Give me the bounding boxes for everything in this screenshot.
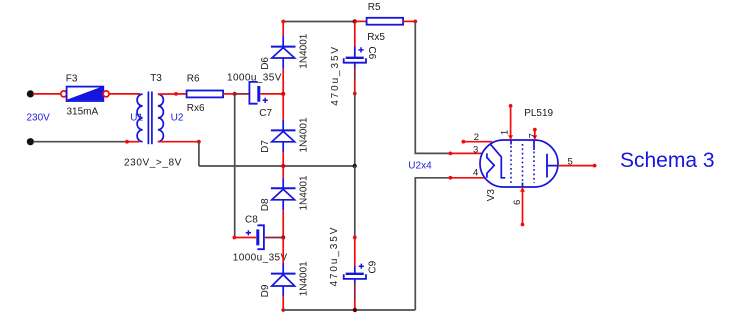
node junction R6/C7 (233, 92, 237, 96)
svg-text:R6: R6 (187, 74, 200, 85)
svg-text:T3: T3 (150, 73, 162, 84)
svg-text:470u_35V: 470u_35V (330, 45, 341, 106)
svg-text:1N4001: 1N4001 (299, 175, 310, 210)
svg-text:C7: C7 (259, 108, 272, 119)
node junction D7/D8 (281, 164, 285, 168)
wire pin 6 (520, 187, 525, 225)
tube heater (487, 153, 494, 177)
tube grid g1 (510, 140, 512, 183)
svg-text:Rx6: Rx6 (187, 103, 205, 114)
wire gray C7-C8 column (234, 94, 236, 238)
svg-text:1000u_35V: 1000u_35V (233, 252, 288, 263)
svg-text:1N4001: 1N4001 (299, 261, 310, 296)
node secondary top pin (174, 92, 178, 96)
resistor R6 (187, 91, 224, 98)
svg-text:D7: D7 (260, 140, 271, 153)
wire pin 7 (532, 130, 537, 140)
wire (235, 93, 250, 95)
svg-text:7: 7 (527, 133, 538, 138)
wire right column upper (415, 21, 450, 153)
svg-text:470u_35V: 470u_35V (329, 226, 340, 287)
svg-text:D8: D8 (260, 198, 271, 211)
node D9 bottom (281, 308, 285, 312)
wire (109, 93, 140, 95)
node pin5 end (593, 164, 597, 168)
capacitor C8 (234, 225, 283, 249)
tube grid g3 (533, 140, 535, 183)
wire (354, 166, 356, 237)
svg-text:R5: R5 (368, 2, 381, 13)
node pin7 end (533, 128, 537, 132)
diode D7 (271, 94, 296, 166)
wire pin 3 (450, 152, 487, 154)
node junction C7/D6/D7 (281, 92, 285, 96)
svg-text:D9: D9 (260, 284, 271, 297)
label plus C8 (246, 230, 251, 235)
capacitor C9 (344, 237, 366, 310)
tube anode (547, 154, 558, 178)
svg-text:2: 2 (474, 132, 479, 143)
svg-text:3: 3 (473, 144, 478, 155)
node primary bottom pin (125, 140, 129, 144)
svg-text:1: 1 (500, 130, 511, 135)
svg-text:U2x4: U2x4 (408, 160, 432, 171)
svg-text:315mA: 315mA (67, 107, 99, 118)
capacitor C7 (249, 82, 283, 104)
transformer T3 (137, 92, 163, 145)
node junction middle rail end (353, 164, 357, 168)
tube grid g2 (522, 144, 524, 187)
node pin4 net (449, 176, 453, 180)
wire (127, 141, 140, 143)
diode D9 (271, 238, 296, 311)
wire right column lower (415, 178, 450, 310)
node pin3 net (449, 152, 453, 156)
svg-text:U1: U1 (130, 113, 143, 124)
wire (33, 141, 127, 143)
svg-text:V3: V3 (486, 189, 497, 202)
wire middle rail (198, 142, 200, 166)
node D6 top (281, 20, 285, 24)
wire (158, 93, 187, 95)
wire pin 4 (450, 177, 487, 179)
wire (199, 165, 355, 167)
node junction bottom rail / C9 (353, 308, 357, 312)
node pin6 end (521, 223, 525, 227)
svg-text:PL519: PL519 (524, 108, 553, 119)
svg-text:6: 6 (512, 200, 523, 205)
terminal top (27, 90, 34, 97)
node pin1 end (509, 104, 513, 108)
svg-text:C8: C8 (245, 215, 258, 226)
node junction C8/D8/D9 (281, 235, 285, 239)
label plus C9 (359, 264, 364, 269)
svg-text:230V: 230V (27, 113, 51, 124)
svg-text:4: 4 (473, 168, 478, 179)
terminal bottom (27, 138, 34, 145)
node R5 right (413, 20, 417, 24)
wire pin 5 (558, 165, 595, 167)
wire (223, 93, 235, 95)
tube V3 envelope (480, 140, 558, 187)
wire (158, 141, 199, 143)
wire pin 1 (508, 106, 513, 140)
svg-text:C6: C6 (366, 46, 377, 59)
fuse F3 (61, 87, 109, 101)
diode D8 (271, 166, 296, 238)
node C8 left (233, 236, 237, 240)
wire (33, 93, 61, 95)
wire pin 2 (463, 141, 492, 143)
node junction top rail / R5 (353, 19, 357, 23)
svg-text:1000u_35V: 1000u_35V (227, 72, 282, 83)
svg-text:Rx5: Rx5 (367, 32, 385, 43)
svg-text:1N4001: 1N4001 (299, 33, 310, 68)
svg-text:230V_>_8V: 230V_>_8V (124, 157, 182, 168)
resistor R5 (355, 18, 416, 25)
svg-text:U2: U2 (171, 113, 184, 124)
wire top rail (283, 21, 355, 23)
svg-text:F3: F3 (66, 73, 78, 84)
label plus C7 (263, 98, 268, 103)
node C6 bottom (353, 92, 357, 96)
wire bottom rail (283, 309, 415, 311)
svg-text:1N4001: 1N4001 (299, 117, 310, 152)
diode D6 (271, 22, 296, 94)
tube cathode (491, 144, 506, 178)
node C9 top (353, 236, 357, 240)
node corner (197, 140, 201, 144)
svg-text:D6: D6 (260, 57, 271, 70)
label plus C6 (358, 47, 363, 52)
svg-text:Schema 3: Schema 3 (620, 149, 715, 172)
wire (354, 94, 356, 167)
capacitor C6 (344, 22, 366, 94)
node pin2 end (462, 140, 466, 144)
svg-text:C9: C9 (368, 260, 379, 273)
svg-text:5: 5 (568, 157, 573, 168)
